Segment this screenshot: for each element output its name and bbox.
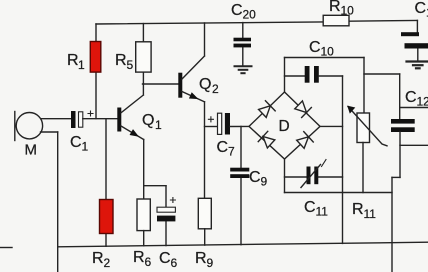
svg-text:C: C: [415, 0, 427, 17]
label R5: [115, 52, 134, 72]
wire bridge top to R11: [285, 57, 365, 59]
ground below C20: [235, 66, 252, 73]
capacitor C12: [391, 74, 428, 177]
resistor R5: [136, 24, 151, 84]
svg-text:C: C: [249, 169, 261, 186]
wire bridge top riser: [284, 58, 286, 93]
label R9: [195, 250, 214, 270]
svg-text:7: 7: [228, 145, 235, 159]
svg-text:1: 1: [155, 118, 162, 132]
resistor R2: [100, 119, 114, 247]
label C11: [304, 199, 328, 219]
rheostat R11: [347, 58, 387, 193]
svg-text:C: C: [309, 39, 321, 56]
svg-text:2: 2: [212, 82, 219, 96]
wire R11 top to C12: [364, 73, 400, 75]
label C13: [415, 0, 428, 20]
capacitor C10: [305, 66, 343, 83]
svg-text:R: R: [67, 52, 79, 69]
svg-text:12: 12: [417, 95, 428, 109]
resistor R6: [137, 199, 150, 246]
wire bridge bottom riser: [284, 159, 286, 193]
svg-text:C: C: [159, 250, 171, 267]
label C9: [249, 169, 268, 189]
svg-text:9: 9: [261, 175, 268, 189]
wire mic ground drop: [57, 132, 59, 272]
capacitor C11 (trimmer): [301, 160, 343, 188]
svg-text:1: 1: [78, 58, 85, 72]
diode D-topright: [294, 100, 312, 118]
capacitor C13 (top right, cut by edge): [401, 20, 428, 60]
capacitor C9: [230, 126, 249, 244]
capacitor C6: [157, 186, 175, 246]
svg-text:R: R: [329, 0, 341, 15]
svg-text:D: D: [279, 118, 290, 135]
diode D-bottomright: [296, 132, 314, 150]
svg-text:20: 20: [243, 8, 257, 22]
svg-text:R: R: [195, 250, 207, 267]
wire C11 branch left: [285, 176, 307, 178]
label C12: [405, 89, 428, 109]
label R2: [92, 250, 111, 270]
wire right ground column: [391, 177, 393, 272]
svg-text:R: R: [115, 52, 127, 69]
label C20: [231, 2, 256, 22]
wire bridge right to node: [320, 125, 343, 127]
ground below C13: [407, 62, 428, 69]
svg-text:R: R: [92, 250, 104, 267]
svg-text:6: 6: [145, 255, 152, 269]
svg-text:R: R: [352, 201, 364, 218]
svg-text:C: C: [304, 199, 316, 216]
microphone M: [15, 112, 71, 141]
svg-text:6: 6: [171, 256, 178, 270]
wire Q2 base bus: [143, 83, 179, 85]
resistor R10: [323, 15, 349, 25]
label D: [279, 118, 290, 135]
svg-text:C: C: [217, 139, 229, 156]
wire C10 branch left: [285, 75, 305, 77]
resistor R9: [198, 198, 211, 245]
svg-text:10: 10: [341, 4, 355, 18]
wire bottom ground rail: [58, 242, 428, 247]
label C7: [217, 139, 236, 159]
wire bridge bottom bus: [285, 192, 393, 194]
label Q1: [142, 112, 162, 132]
diode bridge D outline: [249, 92, 320, 159]
wire bottom left stub: [0, 247, 12, 249]
capacitor C20: [234, 23, 252, 66]
transistor Q1: [117, 84, 143, 199]
svg-text:5: 5: [127, 58, 134, 72]
label R10: [329, 0, 354, 18]
diode D-bottomleft: [258, 131, 276, 149]
label Q2: [199, 76, 219, 96]
label C10: [309, 39, 334, 59]
diode D-topleft: [258, 101, 276, 119]
wire top supply rail left of R10: [96, 22, 323, 24]
svg-text:2: 2: [104, 256, 111, 270]
label R11: [352, 201, 376, 221]
label C1: [70, 134, 89, 154]
capacitor C7: [205, 113, 250, 135]
svg-text:10: 10: [321, 45, 335, 59]
wire right node column: [342, 76, 344, 243]
svg-text:11: 11: [316, 205, 329, 219]
svg-text:9: 9: [207, 256, 214, 270]
svg-text:1: 1: [82, 140, 89, 154]
transistor Q2: [178, 23, 204, 198]
svg-text:R: R: [133, 249, 145, 266]
svg-text:C: C: [405, 89, 417, 106]
label R1: [67, 52, 85, 72]
svg-text:M: M: [25, 142, 38, 159]
label C6: [159, 250, 178, 270]
label R6: [133, 249, 152, 269]
svg-text:Q: Q: [199, 76, 211, 93]
svg-text:Q: Q: [142, 112, 154, 129]
wire emitter jog to C6: [144, 185, 166, 187]
wire top supply rail right of R10: [349, 19, 417, 22]
capacitor C1: [71, 111, 118, 128]
svg-text:C: C: [231, 2, 243, 19]
label M: [25, 142, 38, 159]
svg-text:11: 11: [364, 207, 377, 221]
svg-text:C: C: [70, 134, 82, 151]
resistor R1: [90, 24, 101, 119]
